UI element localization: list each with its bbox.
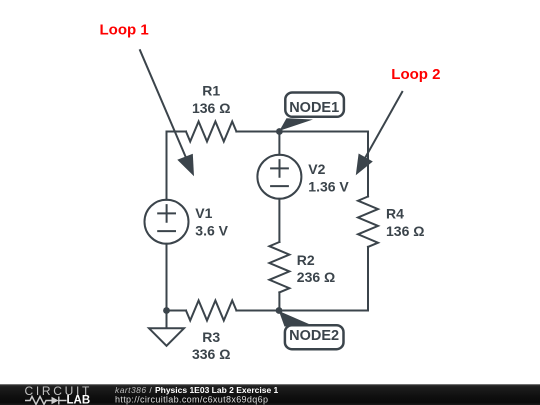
svg-text:V2: V2	[308, 161, 325, 177]
node NODE1 flag	[279, 93, 344, 131]
voltage source V1	[145, 200, 189, 244]
svg-text:Loop 2: Loop 2	[391, 66, 440, 83]
svg-text:R2: R2	[297, 252, 315, 268]
resistor R3	[186, 301, 236, 321]
component value labels	[192, 83, 425, 363]
resistor R4	[358, 197, 378, 247]
svg-text:Loop 1: Loop 1	[100, 21, 149, 38]
wire middle vertical (V2/R2 branch)	[278, 132, 280, 311]
ground	[149, 311, 184, 346]
annotation Loop 2 arrow	[356, 91, 403, 175]
footer bar	[0, 384, 540, 405]
resistor R2	[269, 242, 289, 292]
wire top horizontal	[167, 131, 369, 133]
ground junction	[163, 307, 170, 314]
voltage source V2	[257, 155, 301, 199]
wire right vertical (R4 branch)	[367, 132, 369, 311]
node NODE1 junction	[276, 128, 283, 135]
svg-text:R4: R4	[386, 206, 404, 222]
svg-text:1.36 V: 1.36 V	[308, 178, 349, 194]
svg-text:http://circuitlab.com/c6xut8x6: http://circuitlab.com/c6xut8x69dq6p	[115, 394, 268, 404]
svg-text:R3: R3	[202, 329, 220, 345]
svg-text:3.6 V: 3.6 V	[195, 222, 228, 238]
wire left vertical (V1 branch)	[166, 132, 168, 311]
resistor R1	[186, 122, 236, 142]
svg-text:236 Ω: 236 Ω	[297, 269, 335, 285]
wire bottom horizontal	[167, 310, 369, 312]
svg-text:136 Ω: 136 Ω	[386, 223, 424, 239]
svg-text:LAB: LAB	[67, 395, 91, 405]
node NODE2 junction	[276, 307, 283, 314]
annotation Loop 1 arrow	[140, 49, 194, 176]
svg-text:136 Ω: 136 Ω	[192, 100, 230, 116]
svg-text:NODE1: NODE1	[289, 100, 339, 116]
node junction dots	[163, 128, 283, 314]
footer logo circuit glyph	[25, 397, 67, 405]
node NODE2 flag	[279, 311, 344, 349]
svg-text:336 Ω: 336 Ω	[192, 346, 230, 362]
svg-text:R1: R1	[202, 83, 220, 99]
svg-text:NODE2: NODE2	[289, 328, 339, 344]
svg-text:V1: V1	[195, 205, 212, 221]
svg-text:kart386 / Physics 1E03 Lab 2 E: kart386 / Physics 1E03 Lab 2 Exercise 1	[115, 385, 279, 395]
